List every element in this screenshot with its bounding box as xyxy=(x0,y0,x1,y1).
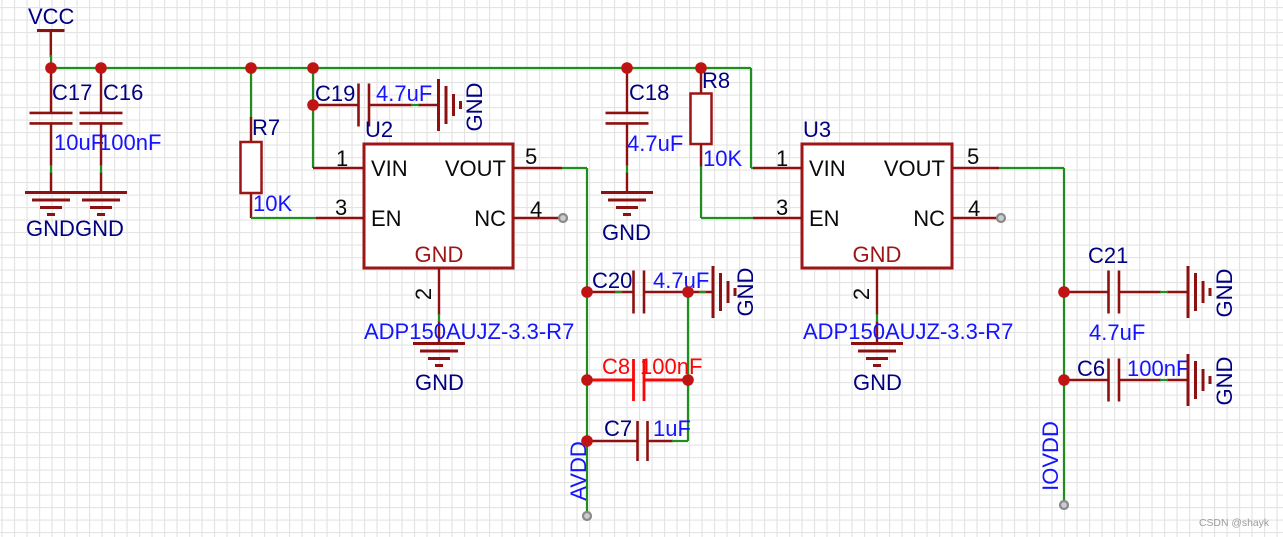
value 100nF xyxy=(99,130,161,155)
no-connect endpoint xyxy=(997,214,1005,222)
svg-text:3: 3 xyxy=(335,195,347,220)
pin GND xyxy=(415,242,464,344)
svg-text:EN: EN xyxy=(371,206,402,231)
svg-text:GND: GND xyxy=(415,370,464,395)
junction xyxy=(581,435,593,447)
junction xyxy=(307,99,319,111)
watermark xyxy=(1199,518,1270,529)
designator C16 xyxy=(103,80,143,105)
svg-text:GND: GND xyxy=(733,268,758,317)
svg-text:4.7uF: 4.7uF xyxy=(376,81,432,106)
junction xyxy=(1058,286,1070,298)
designator C17 xyxy=(52,80,92,105)
svg-text:4: 4 xyxy=(968,196,980,221)
svg-text:1: 1 xyxy=(776,146,788,171)
resistor R8 xyxy=(691,68,712,167)
pin number 1 xyxy=(336,146,348,171)
label GND xyxy=(75,216,124,241)
designator C21 xyxy=(1088,243,1128,268)
svg-text:U3: U3 xyxy=(803,117,831,142)
wire C17 to ground xyxy=(50,165,52,173)
junction xyxy=(307,62,319,74)
port endpoint IOVDD xyxy=(1060,501,1068,509)
pin number 3 xyxy=(776,195,788,220)
svg-text:C16: C16 xyxy=(103,80,143,105)
value 4.7uF xyxy=(653,268,709,293)
svg-text:C18: C18 xyxy=(629,80,669,105)
value 10K xyxy=(703,146,742,171)
net label IOVDD xyxy=(1038,421,1063,491)
svg-text:5: 5 xyxy=(525,144,537,169)
wire C21 to ground xyxy=(1160,291,1168,293)
wire U2 gnd pin xyxy=(438,314,440,322)
svg-text:4.7uF: 4.7uF xyxy=(653,268,709,293)
capacitor C21 xyxy=(1064,271,1187,314)
wire C6 to ground xyxy=(1160,379,1168,381)
ground xyxy=(75,193,127,215)
pin VIN xyxy=(313,156,408,181)
svg-text:2: 2 xyxy=(849,288,874,300)
pin NC xyxy=(913,206,997,231)
junction xyxy=(95,62,107,74)
value 100nF xyxy=(640,354,702,379)
capacitor C16 xyxy=(80,68,123,193)
label GND xyxy=(462,83,487,132)
wire bus to C19 node xyxy=(312,68,314,168)
pin number 4 xyxy=(968,196,980,221)
wire bus to R7 xyxy=(250,68,252,118)
wire VCC to bus xyxy=(50,55,52,68)
svg-text:ADP150AUJZ-3.3-R7: ADP150AUJZ-3.3-R7 xyxy=(803,319,1013,344)
junction xyxy=(1058,374,1070,386)
svg-text:U2: U2 xyxy=(365,117,393,142)
svg-text:VIN: VIN xyxy=(371,156,408,181)
wire C19 to ground xyxy=(411,104,419,106)
pin VIN xyxy=(753,156,846,181)
svg-text:VCC: VCC xyxy=(28,4,75,29)
pin VOUT xyxy=(445,156,562,181)
svg-text:4.7uF: 4.7uF xyxy=(1089,320,1145,345)
label GND xyxy=(853,370,902,395)
ground xyxy=(1188,266,1210,318)
value 100nF xyxy=(1127,356,1189,381)
comment ADP150AUJZ-3.3-R7 xyxy=(364,319,574,344)
svg-text:NC: NC xyxy=(474,206,506,231)
no-connect endpoint xyxy=(559,214,567,222)
svg-text:C8: C8 xyxy=(602,354,630,379)
pin EN xyxy=(316,206,402,231)
svg-text:GND: GND xyxy=(853,370,902,395)
label GND xyxy=(415,370,464,395)
svg-text:5: 5 xyxy=(967,144,979,169)
label GND xyxy=(602,220,651,245)
svg-text:C21: C21 xyxy=(1088,243,1128,268)
svg-text:2: 2 xyxy=(411,288,436,300)
svg-text:100nF: 100nF xyxy=(640,354,702,379)
designator C19 xyxy=(315,81,355,106)
svg-text:1uF: 1uF xyxy=(653,416,691,441)
wire C18 to ground xyxy=(626,165,628,173)
svg-text:GND: GND xyxy=(1212,357,1237,406)
value 10uF xyxy=(54,130,104,155)
capacitor C17 xyxy=(30,68,73,193)
junction xyxy=(581,286,593,298)
value 4.7uF xyxy=(1089,320,1145,345)
designator C7 xyxy=(604,416,632,441)
wire C20 to ground xyxy=(688,291,712,293)
comment ADP150AUJZ-3.3-R7 xyxy=(803,319,1013,344)
svg-text:10uF: 10uF xyxy=(54,130,104,155)
wire C7 right xyxy=(672,440,688,442)
ground xyxy=(713,266,735,318)
svg-text:C17: C17 xyxy=(52,80,92,105)
svg-text:GND: GND xyxy=(1212,269,1237,318)
svg-text:C19: C19 xyxy=(315,81,355,106)
net label AVDD xyxy=(566,441,591,501)
svg-text:IOVDD: IOVDD xyxy=(1038,421,1063,491)
svg-text:C7: C7 xyxy=(604,416,632,441)
designator R7 xyxy=(252,115,280,140)
value 10K xyxy=(253,191,292,216)
op-amp U3 regulator body xyxy=(802,144,952,268)
designator R8 xyxy=(702,68,730,93)
value 1uF xyxy=(653,416,691,441)
pin number 5 xyxy=(525,144,537,169)
capacitor C6 xyxy=(1064,359,1187,402)
junction xyxy=(682,374,694,386)
wire R7 to EN xyxy=(251,217,316,219)
wire VOUT U3 to C21 xyxy=(999,168,1064,292)
designator C6 xyxy=(1077,356,1105,381)
designator C18 xyxy=(629,80,669,105)
capacitor C18 xyxy=(606,68,649,193)
svg-text:GND: GND xyxy=(853,242,902,267)
svg-text:4: 4 xyxy=(530,197,542,222)
wire IOVDD rail xyxy=(1063,292,1065,505)
svg-text:EN: EN xyxy=(809,206,840,231)
svg-text:VOUT: VOUT xyxy=(884,156,945,181)
designator U3 xyxy=(803,117,831,142)
ground xyxy=(439,79,461,131)
pin number 2 xyxy=(411,288,436,300)
svg-text:100nF: 100nF xyxy=(99,130,161,155)
pin NC xyxy=(474,206,559,231)
wire AVDD rail xyxy=(586,292,588,516)
designator C20 xyxy=(592,268,632,293)
power port VCC xyxy=(37,31,65,58)
svg-text:C20: C20 xyxy=(592,268,632,293)
svg-text:GND: GND xyxy=(462,83,487,132)
value 4.7uF xyxy=(376,81,432,106)
pin number 4 xyxy=(530,197,542,222)
svg-text:R7: R7 xyxy=(252,115,280,140)
svg-text:CSDN @shayk: CSDN @shayk xyxy=(1199,518,1270,529)
port endpoint AVDD xyxy=(583,512,591,520)
junction xyxy=(45,62,57,74)
svg-text:C6: C6 xyxy=(1077,356,1105,381)
svg-text:GND: GND xyxy=(415,242,464,267)
wire bus corner to VIN U3 xyxy=(751,68,754,168)
capacitor C8 xyxy=(587,359,688,401)
svg-text:GND: GND xyxy=(75,216,124,241)
capacitor C19 xyxy=(313,84,438,127)
wire C16 to ground xyxy=(100,165,102,173)
pin number 5 xyxy=(967,144,979,169)
pin number 1 xyxy=(776,146,788,171)
svg-text:ADP150AUJZ-3.3-R7: ADP150AUJZ-3.3-R7 xyxy=(364,319,574,344)
svg-text:NC: NC xyxy=(913,206,945,231)
svg-text:100nF: 100nF xyxy=(1127,356,1189,381)
label GND xyxy=(733,268,758,317)
junction xyxy=(245,62,257,74)
ground xyxy=(25,193,77,215)
svg-text:10K: 10K xyxy=(253,191,292,216)
ground xyxy=(1188,354,1210,406)
wire U3 gnd pin xyxy=(876,314,878,322)
pin EN xyxy=(753,206,840,231)
pin GND xyxy=(853,242,902,344)
svg-text:VIN: VIN xyxy=(809,156,846,181)
svg-text:1: 1 xyxy=(336,146,348,171)
label GND xyxy=(1212,269,1237,318)
value 4.7uF xyxy=(627,131,683,156)
junction xyxy=(581,374,593,386)
designator C8 xyxy=(602,354,630,379)
net name VCC xyxy=(28,4,75,29)
ground xyxy=(851,344,903,366)
wire VCC bus xyxy=(51,67,751,69)
junction xyxy=(682,286,694,298)
svg-text:R8: R8 xyxy=(702,68,730,93)
op-amp U2 regulator body xyxy=(364,144,513,268)
pin number 2 xyxy=(849,288,874,300)
svg-text:4.7uF: 4.7uF xyxy=(627,131,683,156)
capacitor C7 xyxy=(587,421,673,461)
designator U2 xyxy=(365,117,393,142)
pin VOUT xyxy=(884,156,999,181)
wire VOUT U2 to C20 xyxy=(562,168,587,292)
pin number 3 xyxy=(335,195,347,220)
label GND xyxy=(1212,357,1237,406)
ground xyxy=(413,344,465,366)
svg-text:VOUT: VOUT xyxy=(445,156,506,181)
label GND xyxy=(26,216,75,241)
resistor R7 xyxy=(241,117,262,218)
svg-text:GND: GND xyxy=(26,216,75,241)
svg-text:10K: 10K xyxy=(703,146,742,171)
wire R8 to EN xyxy=(701,166,753,218)
svg-text:AVDD: AVDD xyxy=(566,441,591,501)
junction xyxy=(695,62,707,74)
wire C20 to C7 rail xyxy=(687,292,689,441)
svg-text:3: 3 xyxy=(776,195,788,220)
capacitor C20 xyxy=(587,271,688,314)
svg-text:GND: GND xyxy=(602,220,651,245)
wire C20 stub xyxy=(615,291,622,293)
ground xyxy=(601,193,653,215)
junction xyxy=(621,62,633,74)
